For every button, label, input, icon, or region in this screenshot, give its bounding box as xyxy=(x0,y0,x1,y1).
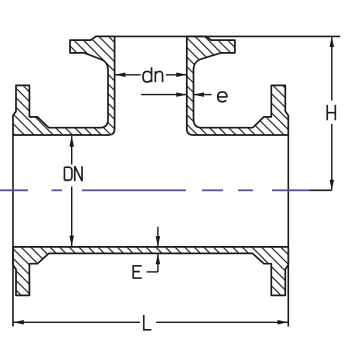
right end face / L extension line xyxy=(287,135,289,327)
left end face / L extension line xyxy=(12,135,14,327)
label dn xyxy=(143,67,163,82)
dimension H (vertical, right) xyxy=(331,37,333,190)
centerline black tail into H dimension xyxy=(310,189,332,191)
bottom body section (lower run wall with both lower end flanges) xyxy=(13,247,288,296)
dimension L (horizontal, bottom) xyxy=(13,321,288,323)
dimension E (run wall thickness) xyxy=(147,227,158,272)
label L xyxy=(144,315,152,330)
label H xyxy=(327,105,335,120)
dimension DN (vertical, inside bore) xyxy=(71,136,73,246)
label e xyxy=(218,92,227,102)
branch face plane / H extension line xyxy=(114,35,341,37)
dimension dn (horizontal, inside branch bore) xyxy=(115,74,187,76)
top-right body section (branch flange, right branch wall, upper-right run wall, right end flange) xyxy=(187,36,288,135)
label E xyxy=(133,266,141,278)
centerline (blue dash-dot) xyxy=(0,189,310,191)
label DN xyxy=(64,166,82,181)
top-left body section (branch flange, left branch wall, upper-left run wall, left end flange) xyxy=(13,36,115,135)
dimension e (branch wall thickness) xyxy=(141,94,212,96)
